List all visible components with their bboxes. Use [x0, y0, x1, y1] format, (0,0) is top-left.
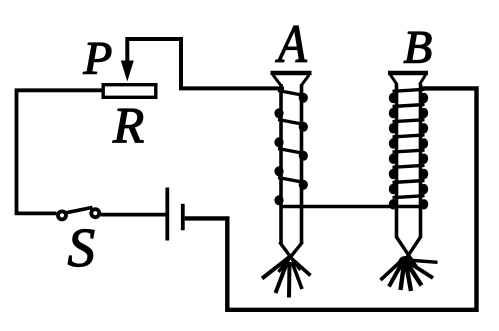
blob of filings at tip of B [399, 256, 413, 267]
svg-text:S: S [68, 217, 96, 278]
switch S lever [66, 207, 93, 212]
screw B taper (crossed point) [397, 237, 421, 270]
coil on B: turn 8 [393, 196, 425, 198]
coil on B: turn 2 [393, 105, 425, 107]
screw A shaft left side [279, 84, 283, 244]
coil on A: turn 2 [274, 108, 283, 118]
svg-text:A: A [275, 14, 307, 74]
screw B shaft left side [395, 84, 399, 238]
battery long plate [165, 188, 169, 241]
coil on B: turn 1 [393, 89, 425, 91]
iron filing spikes at tip of A [262, 257, 290, 279]
coil on A: turn 4 [274, 166, 283, 176]
wire connecting bottom of coil A to bottom of coil B [280, 205, 423, 209]
coil on B: turn 7 [393, 181, 425, 183]
screw A shaft right side [300, 84, 304, 244]
coil on A: turn 1 [278, 91, 305, 96]
coil on A: last left loop [274, 195, 283, 205]
battery short plate [181, 204, 185, 231]
wire from battery down, along bottom, up right side to coil B [185, 88, 477, 309]
coil on A: turn 3 [274, 137, 283, 147]
wire from slider P up, right, and down to coil A [127, 39, 284, 88]
screw A head top bar [271, 71, 312, 75]
switch S left terminal [58, 211, 66, 219]
switch S right terminal [91, 209, 99, 217]
screw B shaft right side [419, 84, 423, 238]
coil on B: turn 4 [393, 135, 425, 137]
screw A head sides [273, 75, 309, 85]
svg-text:R: R [112, 98, 144, 154]
coil on B: turn 3 [393, 120, 425, 122]
coil on B: turn 5 [393, 150, 425, 152]
wire from resistor left end down to switch [17, 90, 102, 213]
resistor R (rheostat body) [103, 85, 156, 98]
coil on B: turn 6 [393, 165, 425, 167]
svg-text:B: B [404, 21, 433, 73]
wire from switch to battery [101, 213, 166, 217]
screw B head sides [391, 75, 426, 85]
svg-text:P: P [83, 33, 113, 85]
screw B head top bar [388, 71, 428, 75]
screw A taper (crossed point) [279, 242, 303, 272]
iron filing spikes at tip of B [407, 260, 438, 262]
slider arrowhead of P [121, 61, 134, 82]
